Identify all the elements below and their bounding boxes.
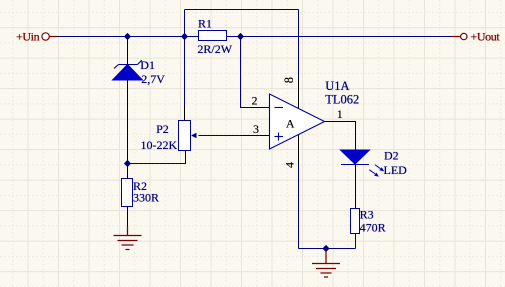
svg-text:A: A [286,116,295,130]
svg-text:+Uin: +Uin [16,29,40,43]
svg-text:2R/2W: 2R/2W [197,42,232,56]
svg-text:330R: 330R [133,191,159,205]
svg-text:TL062: TL062 [325,93,359,107]
svg-text:R1: R1 [198,17,212,31]
svg-text:2: 2 [252,93,258,107]
svg-text:4: 4 [283,162,297,168]
svg-text:P2: P2 [156,122,169,136]
svg-text:8: 8 [282,77,296,83]
svg-text:U1A: U1A [325,79,349,93]
svg-text:R3: R3 [360,207,374,221]
svg-text:1: 1 [337,107,343,121]
svg-text:D1: D1 [140,58,155,72]
svg-text:10-22K: 10-22K [141,138,178,152]
svg-text:D2: D2 [384,149,399,163]
svg-text:LED: LED [384,163,408,177]
svg-text:470R: 470R [360,221,386,235]
svg-text:3: 3 [253,122,259,136]
svg-text:2,7V: 2,7V [141,72,165,86]
svg-text:+Uout: +Uout [471,29,501,43]
